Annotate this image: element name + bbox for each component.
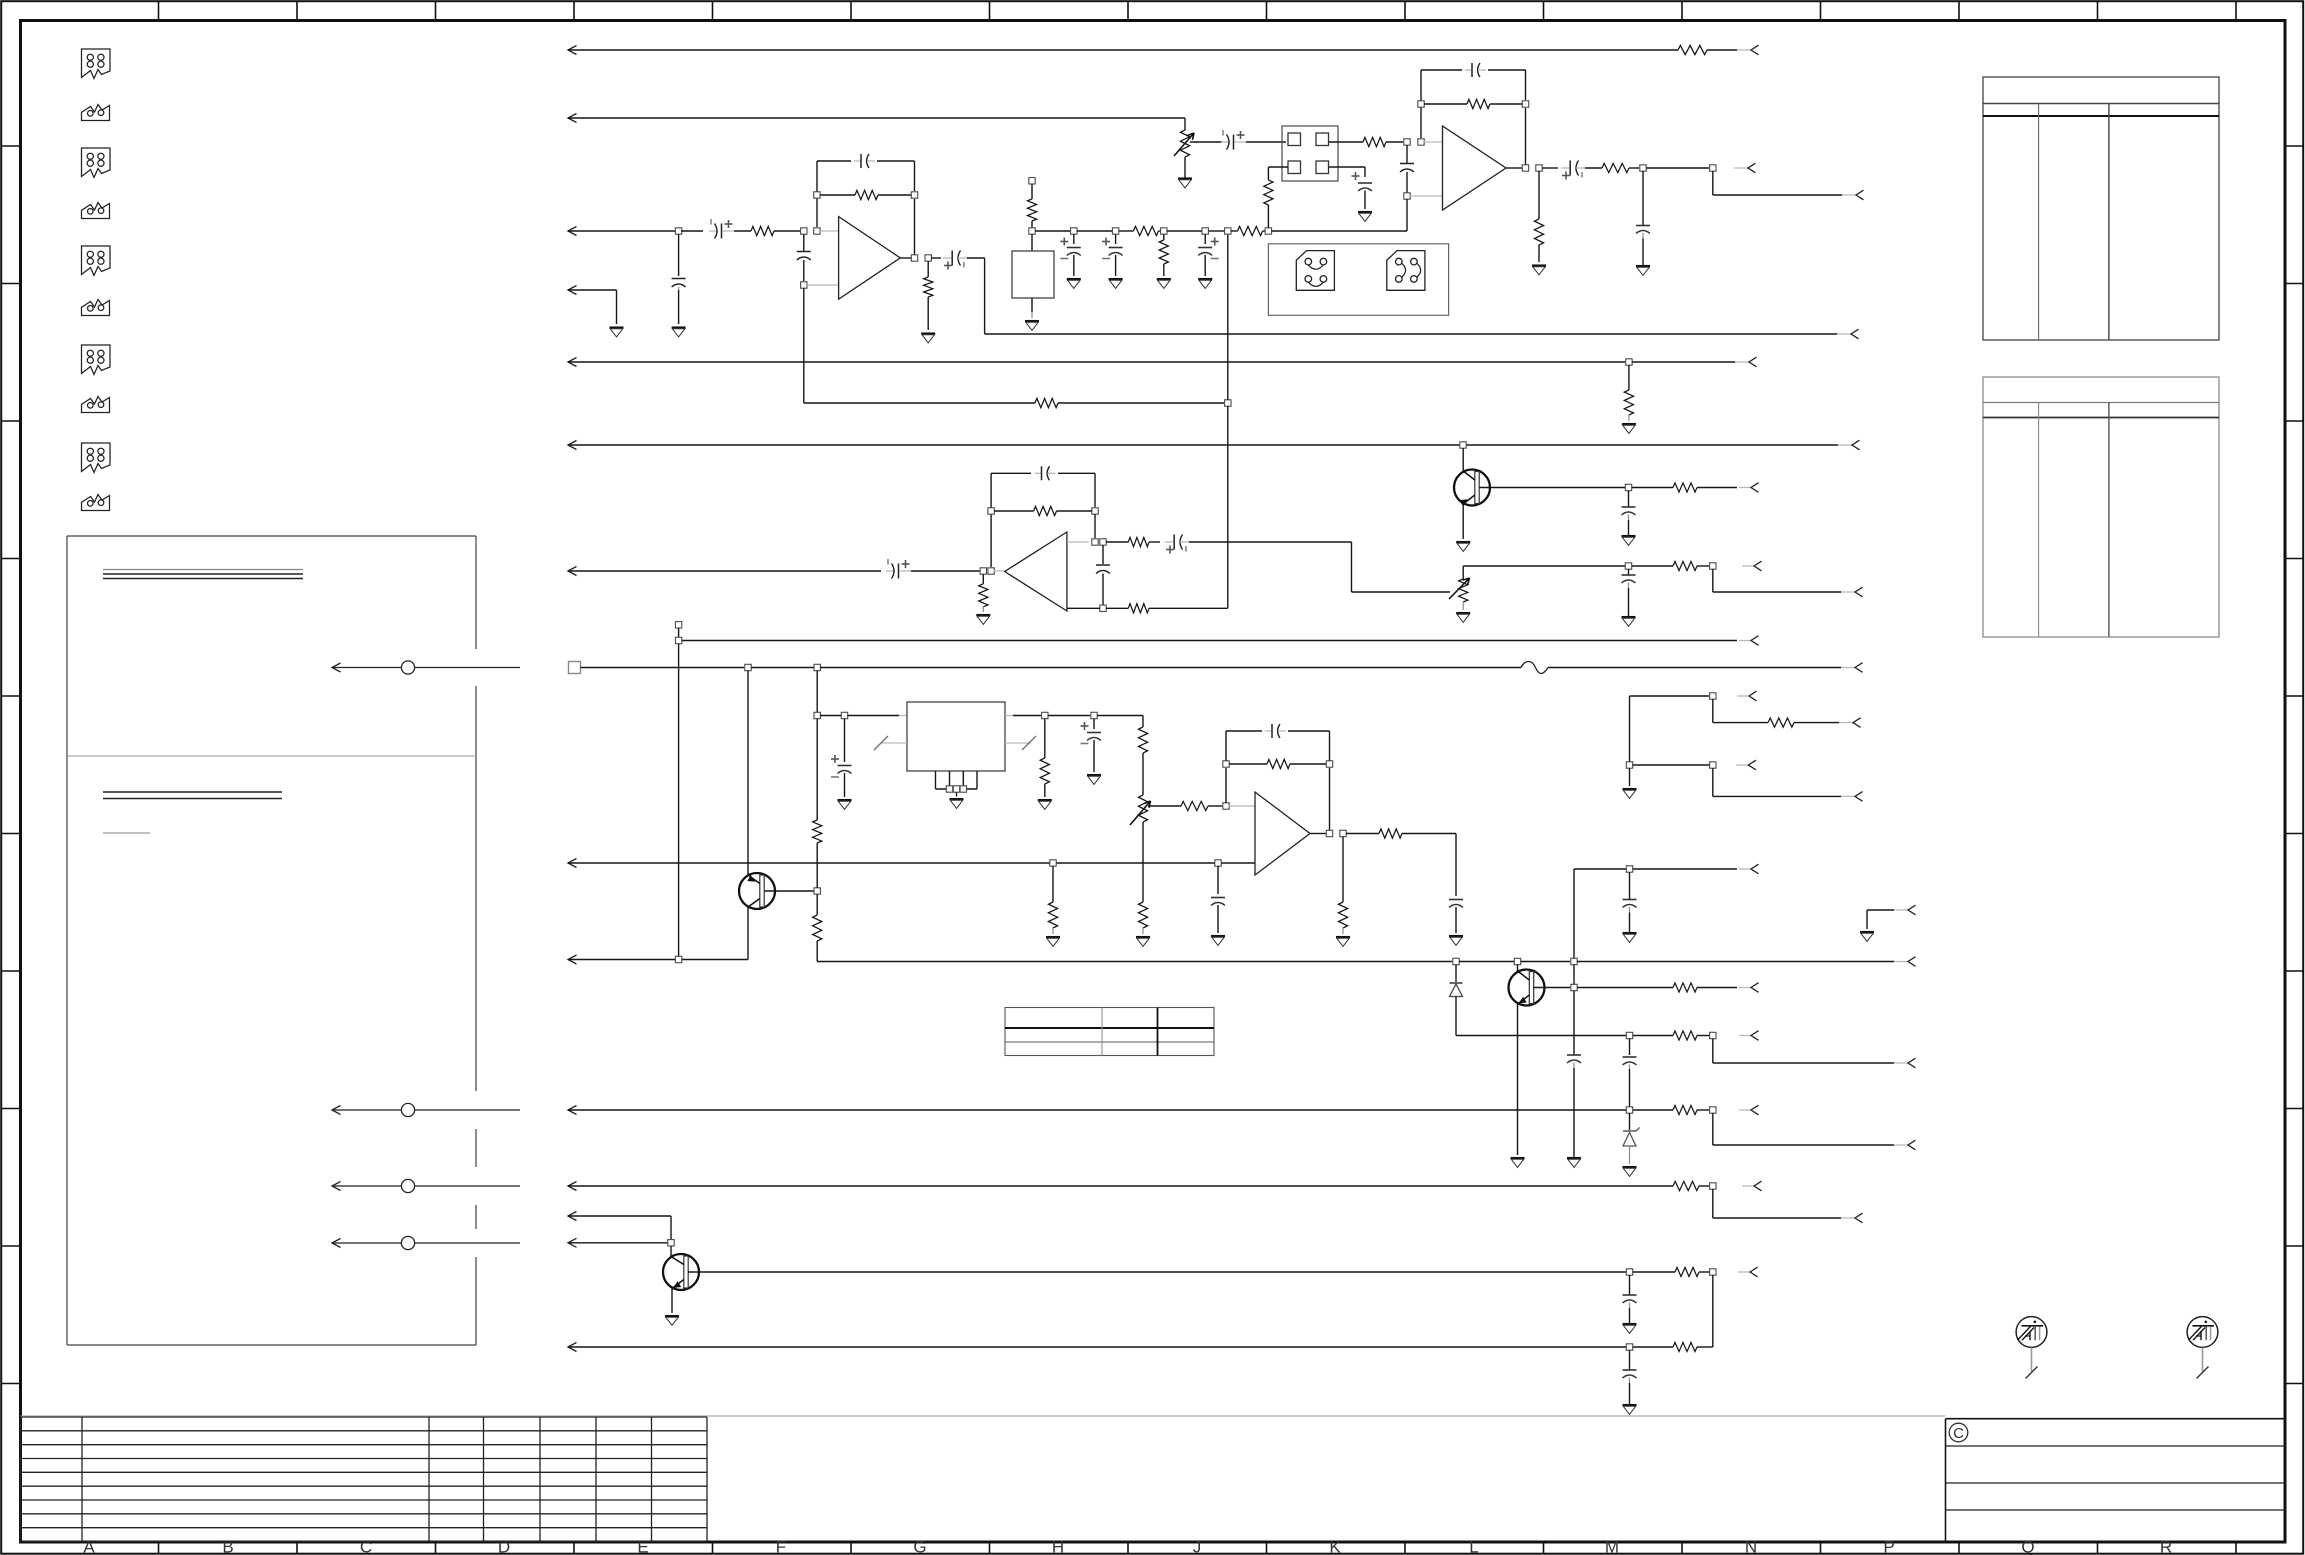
capacitor to ground x1629 row1347 [1629, 1350, 1631, 1370]
Q3 collector [1517, 965, 1519, 972]
transistor Q4 [739, 873, 775, 909]
vertical x1574 with capacitor to ground [1573, 869, 1575, 958]
resistor R? on U3 top input [1106, 541, 1128, 543]
switch contact row [332, 1182, 341, 1191]
wire W3 to C? [681, 230, 703, 232]
U5 left lower pin with slash [881, 742, 907, 744]
U6 output corner down to cap [1455, 834, 1457, 897]
step wire row 722 off-page [1712, 699, 1714, 723]
IC U4 top terminal [1029, 178, 1035, 184]
resistor R? after C? [1585, 167, 1602, 169]
switch contact row [332, 1239, 341, 1248]
svg-text:B: B [222, 1538, 233, 1555]
resistor R? down x1143 [1142, 716, 1144, 728]
ground RV2 [1456, 612, 1470, 614]
switch contact row [332, 663, 341, 672]
potentiometer RV2 [1462, 566, 1464, 579]
wire net W5 [568, 358, 577, 367]
Q4 collector [748, 875, 760, 884]
Q2 emitter wire [1463, 495, 1475, 504]
svg-text:G: G [913, 1538, 926, 1555]
svg-text:M: M [1605, 1538, 1619, 1555]
connector J1 (4-pin fragment) [82, 49, 111, 51]
resistor to ground from W5 [1628, 365, 1630, 390]
resistor R? on W-1347 [1633, 1346, 1673, 1348]
wire row 715 [814, 712, 820, 718]
resistor R? on U3 bottom input [1106, 607, 1128, 609]
title block outline [1945, 1419, 1947, 1542]
resistor R? on W-566 [1632, 565, 1673, 567]
wire W2 corner down [1184, 118, 1186, 130]
border zone ticks left [2, 145, 21, 147]
wire [1048, 715, 1090, 717]
agency approval balloon [2016, 1317, 2047, 1348]
wire net W-1186 [568, 1182, 577, 1191]
wire U1 output [900, 257, 911, 259]
wire to R? [734, 230, 751, 232]
wire U3 top input [1067, 541, 1089, 543]
Q2 base wire [1479, 487, 1625, 489]
wire U2 plus node down to W3 [1406, 199, 1408, 231]
resistor on Q3 base row [1577, 987, 1673, 989]
capacitor to ground from W-566 [1628, 569, 1630, 575]
junction row 765 [1626, 762, 1632, 768]
vertical x817 chain [816, 671, 818, 713]
resistor to ground at U2 output [1538, 171, 1540, 219]
diode D1 [1455, 965, 1457, 983]
resistor to ground at U1 output [927, 261, 929, 277]
junction to K1 lower-left pin [1265, 228, 1271, 234]
connector J9 (4-pin fragment) [82, 443, 111, 445]
junction on W3 [675, 228, 681, 234]
U5 bottom pins to ground [935, 771, 937, 789]
svg-text:P: P [1883, 1538, 1894, 1555]
resistor R? on W3b [1119, 230, 1133, 232]
copyright symbol [1949, 1423, 1968, 1442]
relay/jumper block K1 [1282, 126, 1338, 181]
op-amp U3 feedback resistor [988, 508, 994, 514]
step wire W-1063 off-page [1712, 1039, 1714, 1064]
IC U4 box [1012, 251, 1054, 298]
IC U5 box [907, 702, 1005, 771]
capacitor to ground x1629 row1272 [1629, 1275, 1631, 1295]
wire U2 output [1506, 167, 1522, 169]
wire 715 to U5 [848, 715, 900, 717]
resistor R? on W-1035 [1633, 1035, 1673, 1037]
wire net W-1243 [568, 1238, 577, 1247]
svg-text:Q: Q [2021, 1538, 2034, 1555]
junction Q5 collector [668, 1240, 674, 1246]
Q3 emitter [1518, 995, 1530, 1004]
resistor R? base row [1632, 487, 1673, 489]
junction on Q2 base row [1625, 484, 1631, 490]
balloon leader [2202, 1348, 2204, 1372]
op-amp U3 (pointing left) [1005, 532, 1067, 611]
svg-text:F: F [776, 1538, 786, 1555]
ground for RV1 [1178, 177, 1192, 179]
junction U4 top [1029, 228, 1035, 234]
polar capacitor C? to ground [1073, 234, 1075, 244]
node U1 minus input [801, 228, 807, 234]
junction Q2 collector on W6 [1460, 442, 1466, 448]
wire W-640 off-page [682, 640, 1737, 642]
wire [1077, 230, 1112, 232]
potentiometer RV1 [1180, 130, 1189, 157]
op-amp U2 feedback capacitor branch [1420, 70, 1422, 138]
wire net W-640 terminal [675, 622, 681, 628]
connector J6 (2-pin fragment) [82, 300, 110, 316]
resistor R? on W-1110 [1633, 1109, 1673, 1111]
junction resistor to ground on W8 [1050, 860, 1056, 866]
junction on W3 for long vertical [1225, 228, 1231, 234]
resistor R? on W-1272 [1633, 1271, 1675, 1273]
polar capacitor C? at U1 output [931, 257, 941, 259]
break squiggle on W-668 [1521, 662, 1548, 674]
node U3 input [980, 568, 986, 574]
polar capacitor C? at U2 output [1542, 167, 1558, 169]
resistor R? above U4 [1027, 199, 1036, 221]
jumper options table [1005, 1008, 1214, 1056]
wire to corner x1143 [1097, 715, 1143, 717]
wire W-1035 [1456, 1035, 1626, 1037]
optocoupler footprint box [1268, 244, 1448, 315]
resistor R? on W1 [1678, 45, 1707, 54]
svg-text:C: C [360, 1538, 372, 1555]
polar capacitor C? on U3 top input [1165, 541, 1175, 543]
border zone ticks bottom [158, 1542, 160, 1554]
wire K1 BR pin to cap [1329, 166, 1365, 168]
opto chip B (bottom view) [1387, 251, 1425, 291]
ground stub wire row 910 [1867, 909, 1894, 911]
Q3 emitter ground [1511, 1157, 1525, 1159]
wire W3b from U4 junction [1035, 230, 1070, 232]
revision table [20, 1417, 22, 1542]
op-amp U2 feedback resistor [1418, 101, 1424, 107]
notes box outline [67, 535, 476, 537]
x817 resistor chain lower [816, 719, 818, 821]
ground below x1629 junction [1629, 768, 1631, 786]
connector J7 (4-pin fragment) [82, 345, 111, 347]
vertical node x678 [678, 644, 680, 956]
balloon leader [2031, 1348, 2033, 1372]
junction capacitor to ground on W8 [1215, 860, 1221, 866]
U4 ground pin [1031, 298, 1033, 312]
long vertical node to U3 plus network [1227, 406, 1229, 608]
notes heading lines lower [103, 791, 282, 793]
table T1 header band [1983, 77, 2219, 104]
wire W5 to off-page [1632, 361, 1735, 363]
Q5 base wire W-1272 [688, 1271, 1626, 1273]
svg-text:E: E [637, 1538, 648, 1555]
junction with polar cap to ground 3 [1202, 228, 1208, 234]
Q3 base wire [1534, 987, 1570, 989]
wire net W6 [568, 441, 577, 450]
title block row lines [1946, 1445, 2286, 1447]
separator line above title block [21, 1415, 1946, 1417]
wire to U3 [911, 570, 980, 572]
svg-text:K: K [1329, 1538, 1341, 1555]
capacitor between W-1035 and W-1110 [1629, 1039, 1631, 1056]
resistor R? to U2 inverting input [1363, 137, 1386, 146]
transistor Q2 [1454, 470, 1490, 506]
capacitor C? under U2 minus node [1406, 145, 1408, 163]
step-down wire to off-page [1712, 171, 1714, 195]
notes heading lines upper [103, 569, 303, 571]
resistor feedback wire at x1227 [804, 402, 1035, 404]
wire row 696 [1630, 695, 1710, 697]
resistor R? after U6 output [1346, 833, 1379, 835]
capacitor to ground x1629 row869 [1629, 872, 1631, 899]
op-amp U6 feedback resistor [1225, 768, 1227, 803]
Q4 emitter [748, 899, 760, 908]
resistor to ground at U6 output [1342, 837, 1344, 903]
node U2 plus input [1404, 193, 1410, 199]
wire RV2 top corner [1463, 565, 1625, 567]
agency approval balloon [2187, 1317, 2218, 1348]
polar capacitor C? on W7 [886, 570, 895, 572]
wire C? to relay box [1246, 141, 1286, 143]
wire U5 right pin [1005, 715, 1013, 717]
wire to off-page [1646, 167, 1709, 169]
svg-text:R: R [2160, 1538, 2172, 1555]
capacitor under U1 minus node [803, 234, 805, 251]
wire U6 output [1310, 833, 1326, 835]
step wire row 796 off-page [1712, 768, 1714, 796]
wire net W-1216 [568, 1212, 577, 1221]
svg-text:H: H [1052, 1538, 1064, 1555]
op-amp U6 feedback capacitor [1225, 731, 1227, 761]
svg-text:J: J [1193, 1538, 1202, 1555]
Q4 base wire [764, 890, 814, 892]
svg-text:L: L [1469, 1538, 1478, 1555]
wire row 869 [1574, 868, 1626, 870]
wire net W1 top [568, 46, 577, 55]
capacitor between U3 inputs [1102, 545, 1104, 564]
potentiometer RV3 [1138, 795, 1147, 822]
step wire W-592 off-page [1712, 569, 1714, 592]
svg-text:C: C [1953, 1425, 1964, 1442]
border zone ticks right [2285, 145, 2304, 147]
polar capacitor C? on W3 [709, 230, 718, 232]
junction W-403 vertical [1225, 400, 1231, 406]
wire [1167, 230, 1202, 232]
op-amp U2 [1443, 126, 1507, 210]
op-amp U1 feedback resistor [814, 192, 820, 198]
wire W-668 [581, 667, 745, 669]
svg-text:A: A [83, 1538, 95, 1555]
connector J4 (2-pin fragment) [82, 203, 110, 219]
step wire down to W-1347 [1712, 1275, 1714, 1347]
vertical x748 to Q4 collector [747, 671, 749, 876]
svg-text:N: N [1745, 1538, 1757, 1555]
Q5 emitter [672, 1280, 684, 1289]
junction W-640 [675, 637, 681, 643]
wire W-959 emitter net [568, 955, 577, 964]
wire [1209, 230, 1224, 232]
wire W-334 to off-page [985, 333, 1837, 335]
connector J10 (2-pin fragment) [82, 495, 110, 511]
wire U1 minus node down to corner [803, 288, 805, 403]
transistor Q3 [1509, 970, 1545, 1006]
wire K1 BL pin [1268, 166, 1288, 168]
wire U3 bottom input [1067, 607, 1100, 609]
wire net W7 to U3 [568, 567, 577, 576]
resistor R? on W-1186 [1673, 1181, 1699, 1190]
Q2 emitter ground [1456, 541, 1470, 543]
switch contact row [332, 1106, 341, 1115]
resistor R? on W3b right [1231, 230, 1238, 232]
wire net W3 input [568, 227, 577, 236]
node U6 minus [1223, 803, 1229, 809]
op-amp U6 [1255, 792, 1310, 875]
wire net W-1347 [568, 1343, 577, 1352]
junction with polar cap to ground [1071, 228, 1077, 234]
zener diode Z1 to ground [1629, 1113, 1631, 1130]
node at U2 minus input [1404, 139, 1410, 145]
op-amp U3 feedback capacitor branch [990, 473, 992, 567]
table T2 header band [1983, 377, 2219, 403]
U5 right lower pin with slash [1005, 742, 1031, 744]
node after R? [1640, 165, 1646, 171]
op-amp U1 feedback capacitor branch [816, 161, 818, 227]
wire net W-1110 [568, 1106, 577, 1115]
wire net W4 [568, 286, 577, 295]
Q5 emitter ground [665, 1315, 679, 1317]
wire net W2 [568, 114, 577, 123]
notes box divider [67, 755, 476, 757]
wire net W8 [568, 859, 577, 868]
wire K1 to R? [1329, 141, 1363, 143]
notes short line [103, 832, 150, 834]
Q2 collector wire [1462, 448, 1464, 471]
resistor to ground at U3 input [982, 574, 984, 584]
capacitor to ground x1456 [1449, 899, 1463, 901]
capacitor to ground from node [1642, 171, 1644, 225]
junction with resistor to ground [1161, 228, 1167, 234]
wire to corner down [1189, 541, 1352, 543]
open square terminal W-668 [569, 662, 581, 674]
junction with polar cap to ground 2 [1112, 228, 1118, 234]
connector J3 (4-pin fragment) [82, 148, 111, 150]
table T1 body [1983, 104, 2219, 341]
connector J5 (4-pin fragment) [82, 246, 111, 248]
polar capacitor C? under K1 [1358, 182, 1372, 184]
wire W4 corner to ground [616, 290, 618, 324]
resistor R? up to K1 [1267, 205, 1269, 228]
wire row 765 [1633, 764, 1710, 766]
resistor on row 722 [1768, 718, 1794, 727]
capacitor C? to ground on W3 [678, 234, 680, 276]
polar capacitor C? after RV1 [1221, 141, 1230, 143]
connector J2 (2-pin fragment) [82, 105, 110, 121]
junction resistor to ground [1042, 712, 1048, 718]
capacitor to ground on base row [1628, 491, 1630, 507]
step wire W-1218 off-page [1712, 1189, 1714, 1218]
op-amp U1 [839, 217, 901, 300]
transistor Q5 [663, 1254, 699, 1290]
resistor to ground x1143 [1138, 902, 1147, 928]
step wire W-1145 off-page [1712, 1113, 1714, 1145]
junction on W5 [1626, 359, 1632, 365]
svg-text:D: D [498, 1538, 510, 1555]
junction polar cap to ground [1091, 712, 1097, 718]
opto chip A (bottom view) [1296, 251, 1334, 291]
wire U1 output step down [967, 257, 985, 259]
resistor R? on W3 [751, 226, 774, 235]
wire RV1 wiper to C? [1190, 141, 1222, 143]
wire W3b to U2 plus vertical [1272, 230, 1408, 232]
junction W-566 [1625, 563, 1631, 569]
connector J8 (2-pin fragment) [82, 397, 110, 413]
polar cap to ground x844 [844, 719, 846, 763]
table T2 body [1983, 403, 2219, 638]
node U1 plus input [801, 282, 807, 288]
wire RV3 wiper row [1148, 805, 1181, 807]
wire W-961 bottom rail [817, 961, 1452, 963]
border zone ticks top [158, 2, 160, 21]
wire pot RV2 row [1352, 591, 1451, 593]
vertical x1629 696 to 765 [1629, 696, 1631, 762]
